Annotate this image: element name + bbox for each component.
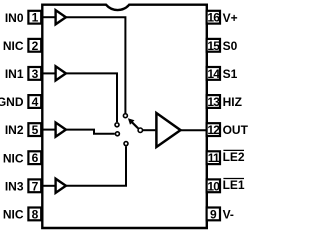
pin 14 box xyxy=(207,67,221,81)
svg-text:OUT: OUT xyxy=(223,123,248,137)
IC body U1 (DIP-16 outline with notch) xyxy=(42,5,207,228)
svg-text:GND: GND xyxy=(0,95,24,109)
switch wiper arrowhead xyxy=(128,118,135,125)
svg-text:IN1: IN1 xyxy=(5,67,24,81)
label LE1 (active low) xyxy=(223,178,245,192)
svg-text:9: 9 xyxy=(210,207,217,221)
svg-text:IN2: IN2 xyxy=(5,123,24,137)
svg-text:14: 14 xyxy=(207,67,220,81)
pin 12 box xyxy=(207,123,221,137)
svg-text:1: 1 xyxy=(32,11,39,25)
op-amp buffer U2 (output amplifier) xyxy=(156,113,180,147)
buffer A2 (IN2) xyxy=(56,123,66,137)
switch contact T3 (IN3 throw) xyxy=(124,142,128,146)
buffer A0 (IN0) xyxy=(56,10,66,24)
pin 10 box xyxy=(207,179,221,193)
svg-text:13: 13 xyxy=(207,95,220,109)
svg-text:S0: S0 xyxy=(223,39,238,53)
svg-text:3: 3 xyxy=(32,67,39,81)
svg-text:LE1: LE1 xyxy=(223,178,245,192)
label LE2 (active low) xyxy=(223,150,245,164)
pin 2 box xyxy=(28,39,41,53)
wire IN0 buffer to switch contact T0 xyxy=(66,17,126,113)
pin 3 box xyxy=(28,67,41,81)
wire pin7 to buffer A3 xyxy=(43,185,56,187)
svg-text:IN0: IN0 xyxy=(5,11,24,25)
buffer A1 (IN1) xyxy=(56,66,66,80)
switch contact T1 (IN1 throw) xyxy=(115,123,119,127)
svg-text:16: 16 xyxy=(207,11,220,25)
svg-text:12: 12 xyxy=(207,123,220,137)
pin 1 box xyxy=(28,11,41,25)
svg-text:7: 7 xyxy=(32,179,39,193)
svg-text:LE2: LE2 xyxy=(223,150,245,164)
wire op-amp output to pin 12 OUT xyxy=(181,129,207,131)
switch wiper pole contact xyxy=(138,128,142,132)
wire wiper to op-amp input xyxy=(143,129,156,131)
svg-text:S1: S1 xyxy=(223,67,238,81)
wire IN2 buffer to switch contact T2 (with jog) xyxy=(66,130,115,134)
wire IN1 buffer to switch contact T1 xyxy=(66,73,117,122)
wire pin1 to buffer A0 xyxy=(43,16,56,18)
svg-text:NIC: NIC xyxy=(3,208,24,222)
svg-text:10: 10 xyxy=(207,179,220,193)
svg-text:2: 2 xyxy=(32,39,39,53)
svg-text:HIZ: HIZ xyxy=(223,95,242,109)
svg-text:4: 4 xyxy=(32,95,39,109)
svg-text:NIC: NIC xyxy=(3,39,24,53)
pin 16 box xyxy=(207,11,221,25)
pin 13 box xyxy=(207,95,221,109)
svg-text:V-: V- xyxy=(223,208,234,222)
pin 4 box xyxy=(28,95,41,109)
pin 15 box xyxy=(207,39,221,53)
svg-text:V+: V+ xyxy=(223,11,238,25)
switch contact T2 (IN2 throw) xyxy=(115,132,119,136)
svg-text:8: 8 xyxy=(32,207,39,221)
pin 7 box xyxy=(28,179,41,193)
pin 6 box xyxy=(28,151,41,165)
pin 5 box xyxy=(28,123,41,137)
svg-text:NIC: NIC xyxy=(3,151,24,165)
pin 9 box xyxy=(207,207,220,221)
pin 11 box xyxy=(207,151,220,165)
svg-text:11: 11 xyxy=(208,151,220,165)
svg-text:IN3: IN3 xyxy=(5,179,24,193)
pin 8 box xyxy=(28,207,41,221)
wire pin3 to buffer A1 xyxy=(43,72,56,74)
svg-text:5: 5 xyxy=(32,123,39,137)
wire pin5 to buffer A2 xyxy=(43,129,56,131)
buffer A3 (IN3) xyxy=(56,179,66,193)
switch wiper arm wire xyxy=(132,122,139,128)
wire IN3 buffer to switch contact T3 xyxy=(66,146,126,186)
switch contact T0 (IN0 throw) xyxy=(123,114,127,118)
svg-text:15: 15 xyxy=(207,39,220,53)
svg-text:6: 6 xyxy=(32,151,39,165)
